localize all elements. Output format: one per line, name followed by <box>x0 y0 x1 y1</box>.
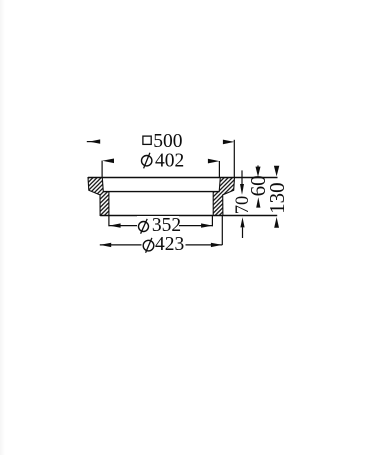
dim 402 right extension line <box>218 161 220 178</box>
dim 130 bottom arrow <box>274 217 279 228</box>
square symbol of 500 <box>143 136 151 144</box>
ledge line <box>103 191 219 193</box>
dim 423 right extension line <box>221 216 223 246</box>
dim 423 left arrow <box>100 243 111 247</box>
svg-text:70: 70 <box>233 196 253 215</box>
svg-text:500: 500 <box>153 131 182 152</box>
bottom line <box>100 215 277 217</box>
svg-text:423: 423 <box>155 234 184 255</box>
dim 352 right arrow <box>201 223 212 227</box>
dim 352 line <box>109 225 212 227</box>
dim 60 bottom arrow <box>256 197 260 207</box>
dim 500 left arrow <box>87 139 100 143</box>
top surface line <box>88 177 278 179</box>
svg-text:402: 402 <box>155 150 184 171</box>
dim 352 left extension line <box>108 216 110 227</box>
dim 130 top arrow <box>274 166 279 177</box>
dim 402 left extension line <box>101 161 103 178</box>
dim 352 text knockout <box>137 216 179 234</box>
dim 352 right extension line <box>211 216 213 227</box>
diameter symbol of 352 <box>139 219 149 234</box>
dim 70 bottom arrow <box>240 217 244 238</box>
right rim/wall section (hatched) <box>213 178 234 216</box>
dim 500 right arrow <box>223 140 235 145</box>
svg-text:130: 130 <box>265 182 289 214</box>
svg-text:352: 352 <box>152 215 181 236</box>
dim 423 line <box>100 244 223 246</box>
dim 423 right arrow <box>211 243 222 247</box>
dim 402 left arrow <box>102 159 114 164</box>
dim 402 right arrow <box>208 159 220 164</box>
left rim/wall section (hatched) <box>88 178 109 216</box>
dim 70 top arrow <box>240 170 244 195</box>
dim 60 top arrow <box>256 165 261 177</box>
diameter symbol of 423 <box>143 238 154 253</box>
diameter symbol of 402 <box>142 153 152 169</box>
dim 352 left arrow <box>109 223 120 227</box>
dim 423 text knockout <box>142 235 186 253</box>
faint left page edge <box>0 0 5 455</box>
dim 500 right extension line <box>233 140 235 178</box>
